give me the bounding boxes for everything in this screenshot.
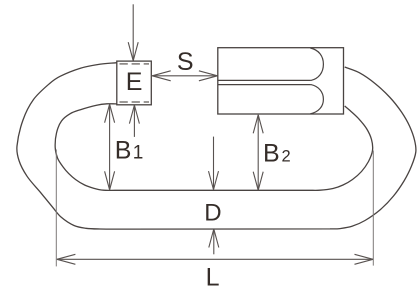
svg-text:B: B xyxy=(115,136,132,164)
svg-text:S: S xyxy=(177,48,194,76)
svg-text:2: 2 xyxy=(282,147,291,165)
svg-text:E: E xyxy=(126,68,143,96)
svg-text:L: L xyxy=(206,263,220,291)
svg-text:1: 1 xyxy=(133,142,144,163)
svg-text:B: B xyxy=(263,139,280,167)
svg-text:D: D xyxy=(204,199,221,226)
